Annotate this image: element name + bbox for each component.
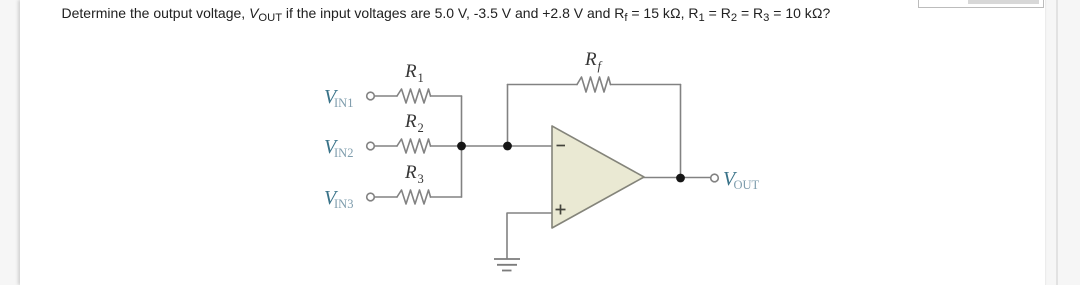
svg-text:2: 2 [418, 121, 424, 135]
op-amp minus pin [557, 145, 566, 147]
wire plus input [507, 213, 552, 258]
node: output junction [676, 174, 685, 183]
terminal VOUT [711, 174, 719, 182]
svg-text:OUT: OUT [734, 178, 760, 192]
svg-text:IN2: IN2 [334, 146, 353, 160]
wire row2 to op-amp [431, 145, 553, 147]
wire row3 left [375, 196, 398, 198]
svg-text:R: R [404, 111, 417, 132]
right panel divider line [1056, 0, 1058, 285]
svg-text:3: 3 [418, 172, 424, 186]
node: feedback tap [503, 142, 512, 151]
wire summing bus [461, 96, 463, 197]
svg-text:f: f [598, 59, 603, 73]
terminal VIN3 [367, 193, 375, 201]
wire feedback top right [611, 84, 681, 86]
terminal VIN2 [367, 142, 375, 150]
svg-text:IN3: IN3 [334, 197, 353, 211]
wire row1 left [375, 95, 398, 97]
wire feedback top left [508, 84, 578, 86]
svg-text:IN1: IN1 [334, 96, 353, 110]
node: summing junction [457, 142, 466, 151]
resistor R3 [397, 190, 431, 204]
resistor R1 [397, 89, 431, 103]
wire row1 right [431, 95, 462, 97]
wire output [644, 177, 710, 179]
wire row3 right [431, 196, 462, 198]
question text [62, 5, 831, 21]
op-amp plus pin [556, 205, 566, 215]
wire feedback left vertical [507, 85, 509, 147]
terminal VIN1 [367, 92, 375, 100]
resistor R2 [397, 139, 431, 153]
wire row2 left [375, 145, 398, 147]
resistor Rf [577, 77, 611, 92]
wire feedback right vertical [680, 85, 682, 179]
svg-text:R: R [584, 49, 597, 70]
svg-text:1: 1 [418, 71, 424, 85]
svg-text:R: R [404, 162, 417, 183]
op-amp U1 [552, 126, 644, 228]
svg-text:R: R [404, 61, 417, 82]
ground [494, 259, 520, 271]
partially visible top-right button [918, 0, 1044, 8]
